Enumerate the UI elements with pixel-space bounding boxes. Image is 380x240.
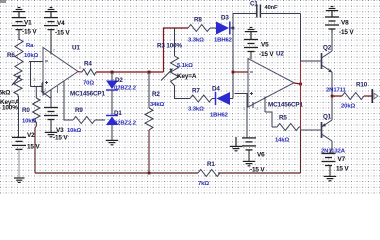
svg-text:V6: V6 [257,152,265,159]
zener D1 [106,115,118,117]
svg-text:5.1kΩ: 5.1kΩ [177,63,193,69]
wire + input down to V6 [246,94,248,138]
diode D3 [216,22,229,35]
svg-text:2N1711: 2N1711 [326,88,347,94]
ground (above V1) [13,8,25,18]
wire U2 inverting input (red) [233,71,248,73]
svg-text:-15 V: -15 V [259,51,274,58]
svg-text:V5: V5 [261,42,269,49]
svg-text:-15 V: -15 V [22,29,37,36]
ground (below U2) [230,137,242,151]
wire: main red bus [96,71,164,73]
svg-text:MC1456CP1: MC1456CP1 [268,102,304,109]
ground (above V5) [245,28,257,40]
resistor R6 [15,39,23,69]
svg-text:V2: V2 [27,132,35,139]
wire V7 to ground [329,166,331,177]
U1 pin stub [57,85,59,93]
svg-text:V4: V4 [57,20,65,27]
svg-text:-15 V: -15 V [53,135,68,142]
svg-text:R8: R8 [194,17,202,24]
capacitor C1 [257,5,261,18]
svg-text:R10: R10 [356,82,368,89]
resistor R8 [188,25,210,32]
U2 minus mark [250,71,253,73]
svg-text:Q1: Q1 [323,114,332,121]
U2 plus mark [250,92,253,95]
wire U2 non-inverting input [235,93,249,95]
wire output (red) [332,95,342,97]
battery V2 [12,137,26,149]
battery V8 [325,17,339,29]
svg-text:-15 V: -15 V [339,29,354,36]
svg-text:14kΩ: 14kΩ [275,138,290,144]
potentiometer 5k (Key=A) [14,69,22,96]
svg-text:R4: R4 [84,61,92,68]
U1 plus mark [45,81,48,84]
svg-text:Ra: Ra [26,43,34,49]
svg-text:40nF: 40nF [265,5,279,11]
node junction output [299,83,302,86]
wire U2 pin to R5 [265,112,272,127]
svg-text:3.3kΩ: 3.3kΩ [188,38,204,44]
op-amp U1 [43,48,78,96]
wire lower jog [31,86,43,88]
ground (below zeners) [106,140,118,144]
svg-text:20kΩ: 20kΩ [341,104,356,110]
svg-text:Key=A: Key=A [177,73,197,80]
battery V4 [44,18,58,30]
wiper arrow of 5k pot [12,77,19,85]
wire D3 to C1 node [230,14,257,29]
svg-text:15 V: 15 V [336,166,349,173]
ground (below V6) [243,161,255,165]
transistor Q1 [301,129,321,131]
vertical integrator input node [232,28,234,99]
svg-text:15 V: 15 V [27,144,40,151]
battery V1 [12,18,26,30]
svg-text:100%: 100% [2,105,18,112]
svg-text:R2: R2 [152,91,160,98]
svg-text:Q2: Q2 [323,45,332,52]
battery V7 [322,154,336,166]
svg-text:1BH62: 1BH62 [210,113,229,119]
svg-text:02BZ2.2: 02BZ2.2 [114,86,137,92]
svg-text:R7: R7 [192,88,200,95]
node junction rail/R2 [148,172,151,175]
U1 power pin down to V3 [50,90,52,108]
svg-text:-15 V: -15 V [55,30,70,37]
R3 bottom lead to lower path [175,88,191,99]
node junction emitters/output [331,95,334,98]
svg-text:R5: R5 [279,115,287,122]
diode D4 [215,92,217,105]
resistor R10 [342,93,364,100]
wire red up to R8 path [164,28,189,72]
svg-text:R9: R9 [75,107,83,114]
battery V3 [44,108,58,120]
resistor R4 [78,71,82,73]
svg-text:02BZ2.2: 02BZ2.2 [114,121,137,127]
wire zener chain to ground [111,125,113,140]
wire V4 to U1 V+ pin [50,30,52,55]
svg-text:10kΩ: 10kΩ [67,128,82,134]
potentiometer R0 10k [35,87,37,99]
corner speck [0,0,6,3]
wire V1 to R6 [18,30,20,40]
svg-text:5kΩ: 5kΩ [0,90,10,97]
resistor R2 chain [148,72,150,108]
output terminal [371,89,373,103]
svg-text:R3 100%: R3 100% [157,43,183,50]
node junction (R2 tap) [148,71,151,74]
wire to U1 inverting input [29,61,43,63]
resistor R5 [272,126,277,128]
wire V3 to ground [50,120,52,133]
ground (below V3) [45,132,57,136]
ground (below V7) [324,176,336,180]
svg-text:D4: D4 [212,86,220,93]
battery V5 [244,40,258,52]
svg-text:V1: V1 [24,20,32,27]
svg-text:R6: R6 [7,52,15,59]
svg-text:MC1456CP1: MC1456CP1 [70,91,106,98]
svg-text:V8: V8 [341,20,349,27]
wire V2 to ground [18,149,20,178]
transistor Q2 [301,60,321,62]
svg-text:R0: R0 [22,107,30,114]
wire R0 down to bottom rail [35,122,36,173]
ground (below V2) [14,178,25,182]
svg-text:70Ω: 70Ω [83,81,94,87]
svg-text:U2: U2 [276,51,284,58]
svg-text:R1: R1 [207,161,215,168]
svg-text:7kΩ: 7kΩ [198,181,209,187]
wire vertical input bus [30,62,32,87]
svg-text:V3: V3 [56,127,64,134]
svg-text:10kΩ: 10kΩ [24,53,39,59]
node junction at integrator input [232,27,235,30]
wire output node down to rail [300,130,302,173]
resistor R7 [190,95,212,102]
svg-text:1BH62: 1BH62 [214,38,233,44]
wire to output terminal [364,95,372,97]
U1 pin down to R9 [64,82,73,121]
svg-text:34kΩ: 34kΩ [150,102,165,108]
vertical output node wire [300,14,302,62]
resistor R9 [73,117,95,124]
svg-text:C1: C1 [250,1,258,8]
wiper arrow of R3 [161,71,171,81]
ground (above V8) [326,7,338,17]
U1 minus mark [45,60,48,62]
wire pot to V2 [18,96,20,137]
battery V6 [242,138,256,150]
svg-text:V7: V7 [338,156,346,163]
svg-text:3.3kΩ: 3.3kΩ [188,107,204,113]
svg-text:D2: D2 [115,77,123,84]
wire between zeners [111,90,113,116]
wire to U1 non-inverting input [41,83,43,92]
svg-text:U1: U1 [72,45,80,52]
op-amp U2 [248,59,294,108]
wiper arrow of R0 [43,93,51,99]
zener D2 [111,72,113,81]
resistor R1 [198,170,220,177]
svg-text:D3: D3 [221,15,229,22]
wire V6 to ground [248,150,250,161]
U2 pin stubs below [252,102,254,108]
node junction (zener tap) [111,71,114,74]
bottom feedback rail [35,172,198,174]
wire V5 to U2 power pin [250,52,252,60]
wire U2 output (red) [294,83,301,84]
svg-text:10kΩ: 10kΩ [22,119,37,125]
ground (above V4) [45,8,57,18]
svg-text:D1: D1 [114,110,122,117]
